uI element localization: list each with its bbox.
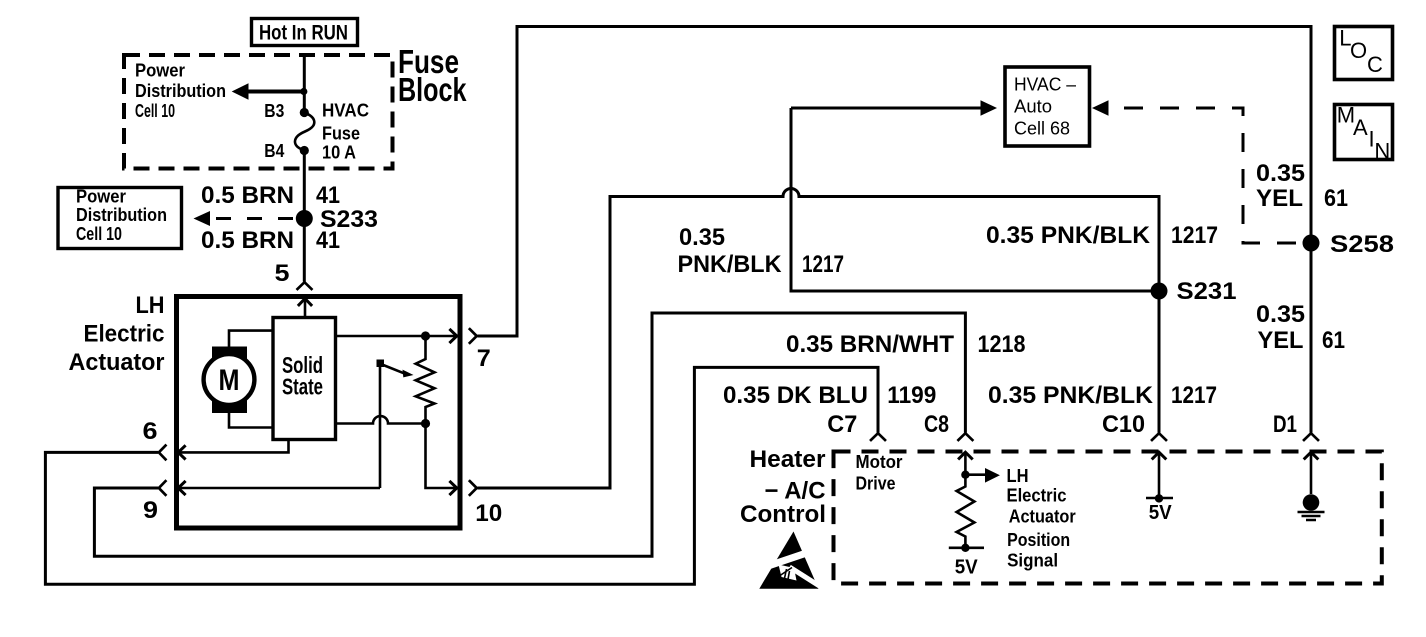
C10 internal: arrow up to 5V bbox=[1146, 452, 1173, 524]
svg-text:41: 41 bbox=[316, 227, 340, 254]
svg-text:N: N bbox=[1374, 139, 1390, 164]
internal wire pin 6 to solid state bottom bbox=[178, 440, 288, 460]
internal arrow pin 5 (up into box) bbox=[298, 299, 312, 319]
svg-text:0.5 BRN: 0.5 BRN bbox=[201, 227, 294, 254]
connector chevron pin 5 bbox=[298, 282, 312, 289]
svg-text:Position: Position bbox=[1007, 530, 1070, 550]
ground symbol at D1 bbox=[1298, 494, 1325, 520]
svg-text:Motor: Motor bbox=[856, 452, 903, 472]
svg-text:YEL: YEL bbox=[1258, 327, 1304, 354]
wire motor top to solid state bbox=[229, 331, 273, 347]
label 0.35 DK BLU 1199 bbox=[723, 382, 936, 409]
svg-text:Electric: Electric bbox=[84, 321, 165, 348]
svg-text:HVAC –: HVAC – bbox=[1014, 75, 1076, 95]
LH Electric Actuator box bbox=[177, 297, 461, 529]
svg-text:C7: C7 bbox=[827, 411, 857, 438]
wire: Hot In RUN down into fuse block bbox=[303, 55, 306, 110]
svg-text:Fuse: Fuse bbox=[322, 124, 360, 144]
svg-text:0.35 BRN/WHT: 0.35 BRN/WHT bbox=[786, 331, 954, 358]
label 0.5 BRN 41 (lower) bbox=[201, 227, 340, 254]
svg-text:5: 5 bbox=[275, 260, 290, 287]
label 0.35 BRN/WHT 1218 bbox=[786, 331, 1026, 358]
svg-text:0.35: 0.35 bbox=[679, 224, 725, 251]
svg-text:0.5 BRN: 0.5 BRN bbox=[201, 182, 294, 209]
arrow to Power Distribution Cell 10 (inside fuse block) bbox=[232, 83, 304, 99]
box Hot In RUN bbox=[252, 19, 358, 46]
motor M bbox=[204, 347, 255, 414]
svg-text:Block: Block bbox=[398, 71, 467, 108]
chevron C8 bbox=[958, 433, 972, 440]
svg-text:Control: Control bbox=[740, 501, 826, 528]
svg-text:Distribution: Distribution bbox=[76, 205, 167, 225]
label Power Distribution Cell 10 (inside fuse block) bbox=[135, 61, 226, 122]
potentiometer resistor bbox=[416, 336, 435, 424]
junction node in fuse block bbox=[300, 88, 307, 95]
label 0.35 PNK/BLK 1217 (upper right) bbox=[986, 222, 1218, 249]
chevron C7 bbox=[871, 433, 885, 440]
chevron pin 9 bbox=[159, 481, 166, 495]
svg-text:0.35 PNK/BLK: 0.35 PNK/BLK bbox=[988, 382, 1154, 409]
svg-text:0.35: 0.35 bbox=[1256, 301, 1305, 328]
svg-text:C10: C10 bbox=[1102, 411, 1145, 438]
svg-text:HVAC: HVAC bbox=[322, 101, 369, 121]
wire S231 branch up to HVAC-Auto (vertical through hop) bbox=[791, 108, 1159, 291]
svg-text:0.35: 0.35 bbox=[1256, 160, 1305, 187]
svg-text:B4: B4 bbox=[264, 141, 284, 161]
splice S258 bbox=[1303, 235, 1320, 252]
svg-text:D1: D1 bbox=[1273, 411, 1297, 438]
svg-text:Cell 10: Cell 10 bbox=[76, 224, 122, 244]
svg-text:State: State bbox=[282, 374, 323, 400]
C8 internal 5V rail bbox=[949, 544, 984, 579]
label HVAC Fuse 10 A bbox=[322, 101, 369, 163]
label Motor Drive bbox=[856, 452, 903, 494]
solid arrow into HVAC-Auto (from S231 branch) bbox=[791, 100, 997, 116]
dashed arrow to Power Distribution Cell 10 box bbox=[194, 211, 294, 226]
svg-text:10: 10 bbox=[475, 500, 502, 527]
C8 internal resistor bbox=[957, 475, 975, 548]
svg-text:5V: 5V bbox=[955, 557, 979, 579]
svg-text:S231: S231 bbox=[1177, 278, 1237, 305]
svg-text:Electric: Electric bbox=[1007, 486, 1067, 506]
svg-text:PNK/BLK: PNK/BLK bbox=[678, 251, 783, 278]
wire motor bottom to solid state bbox=[229, 413, 273, 428]
svg-text:5V: 5V bbox=[1149, 502, 1173, 524]
svg-text:C: C bbox=[1367, 52, 1383, 77]
label LH Electric Actuator Position Signal bbox=[1007, 466, 1076, 571]
svg-text:0.35 DK BLU: 0.35 DK BLU bbox=[723, 382, 868, 409]
svg-text:LH: LH bbox=[1007, 466, 1029, 486]
Heater A/C Control dashed box bbox=[834, 452, 1382, 584]
svg-text:B3: B3 bbox=[264, 101, 284, 121]
svg-text:1217: 1217 bbox=[1171, 382, 1217, 409]
splice S233 bbox=[296, 210, 313, 227]
svg-text:Heater: Heater bbox=[750, 446, 826, 473]
svg-text:C8: C8 bbox=[924, 411, 949, 438]
ESD symbol bbox=[759, 532, 825, 590]
svg-text:Cell 68: Cell 68 bbox=[1014, 119, 1070, 139]
label 0.35 YEL 61 (lower right) bbox=[1256, 301, 1345, 354]
svg-text:6: 6 bbox=[143, 418, 158, 445]
svg-text:1217: 1217 bbox=[1171, 222, 1218, 249]
svg-text:S258: S258 bbox=[1330, 231, 1394, 258]
svg-text:Power: Power bbox=[76, 187, 126, 207]
svg-text:Actuator: Actuator bbox=[1009, 507, 1076, 527]
wiper wire down (through hop) bbox=[379, 366, 382, 488]
MAIN box bbox=[1335, 103, 1393, 164]
svg-text:A: A bbox=[1353, 115, 1368, 140]
label Fuse Block bbox=[398, 43, 467, 108]
LOC box bbox=[1335, 26, 1393, 80]
chevron D1 bbox=[1304, 433, 1318, 440]
wire B4 down to pin 5 bbox=[303, 152, 306, 282]
svg-text:O: O bbox=[1350, 38, 1367, 63]
svg-text:1217: 1217 bbox=[802, 251, 844, 278]
Solid State box bbox=[273, 318, 336, 440]
potentiometer wiper arrow bbox=[377, 360, 414, 378]
svg-text:Power: Power bbox=[135, 61, 185, 81]
svg-text:Hot In RUN: Hot In RUN bbox=[259, 22, 348, 45]
internal wire pot bottom to pin 10 bbox=[426, 424, 457, 496]
chevron C10 bbox=[1152, 433, 1166, 440]
internal wire pin 9 to wiper bbox=[178, 481, 380, 495]
chevron pin 10 bbox=[470, 481, 477, 495]
label Heater - A/C Control bbox=[740, 446, 826, 528]
chevron pin 7 bbox=[470, 329, 477, 343]
svg-text:Drive: Drive bbox=[856, 474, 896, 494]
wire pin 10 to S231 / C10 (0.35 PNK/BLK 1217, hop at x=791) bbox=[478, 189, 1160, 489]
svg-text:Signal: Signal bbox=[1007, 551, 1058, 571]
svg-text:7: 7 bbox=[477, 345, 491, 372]
svg-text:0.35 PNK/BLK: 0.35 PNK/BLK bbox=[986, 222, 1151, 249]
fuse HVAC Fuse 10 A bbox=[295, 108, 314, 155]
wire solid state lower-right with hop over wiper wire bbox=[336, 416, 426, 423]
chevron pin 6 bbox=[159, 446, 166, 460]
wire pin 6 to C7 (0.35 DK BLU 1199) bbox=[45, 367, 878, 584]
svg-text:M: M bbox=[219, 364, 240, 397]
C8 internal: branch arrow to LH Electric Actuator Position Signal bbox=[965, 468, 1000, 483]
svg-text:Distribution: Distribution bbox=[135, 81, 226, 101]
C8 internal: arrow up bbox=[958, 452, 973, 479]
svg-text:1199: 1199 bbox=[887, 382, 936, 409]
svg-text:9: 9 bbox=[143, 497, 158, 524]
dashed wire S258 to HVAC-Auto bbox=[1092, 100, 1296, 243]
wire solid state to pin 7 with junction bbox=[336, 329, 457, 343]
label 0.5 BRN 41 (upper) bbox=[201, 182, 340, 209]
svg-text:Cell 10: Cell 10 bbox=[135, 101, 175, 121]
svg-text:YEL: YEL bbox=[1256, 185, 1303, 212]
box HVAC-Auto Cell 68 bbox=[1005, 67, 1090, 146]
wire pin 7 to top rail (0.35 YEL 61) bbox=[478, 27, 1312, 433]
svg-text:LH: LH bbox=[136, 292, 165, 319]
label 0.35 PNK/BLK 1217 (lower) bbox=[988, 382, 1217, 409]
label 0.35 YEL 61 (upper right) bbox=[1256, 160, 1348, 212]
svg-text:61: 61 bbox=[1324, 185, 1348, 212]
label LH Electric Actuator bbox=[69, 292, 165, 376]
D1 internal: arrow up from ground bbox=[1304, 452, 1319, 494]
box Power Distribution Cell 10 bbox=[58, 187, 182, 249]
svg-text:Actuator: Actuator bbox=[69, 349, 165, 376]
splice S231 bbox=[1151, 283, 1168, 300]
svg-text:41: 41 bbox=[316, 182, 340, 209]
wire pin 9 to C8 (0.35 BRN/WHT 1218) bbox=[94, 313, 965, 556]
fuse block dashed box bbox=[124, 55, 393, 169]
svg-text:61: 61 bbox=[1322, 327, 1345, 354]
svg-text:Auto: Auto bbox=[1014, 97, 1052, 117]
svg-text:10 A: 10 A bbox=[322, 143, 356, 163]
svg-text:1218: 1218 bbox=[978, 331, 1026, 358]
label 0.35 PNK/BLK 1217 (left, two lines) bbox=[678, 224, 845, 278]
